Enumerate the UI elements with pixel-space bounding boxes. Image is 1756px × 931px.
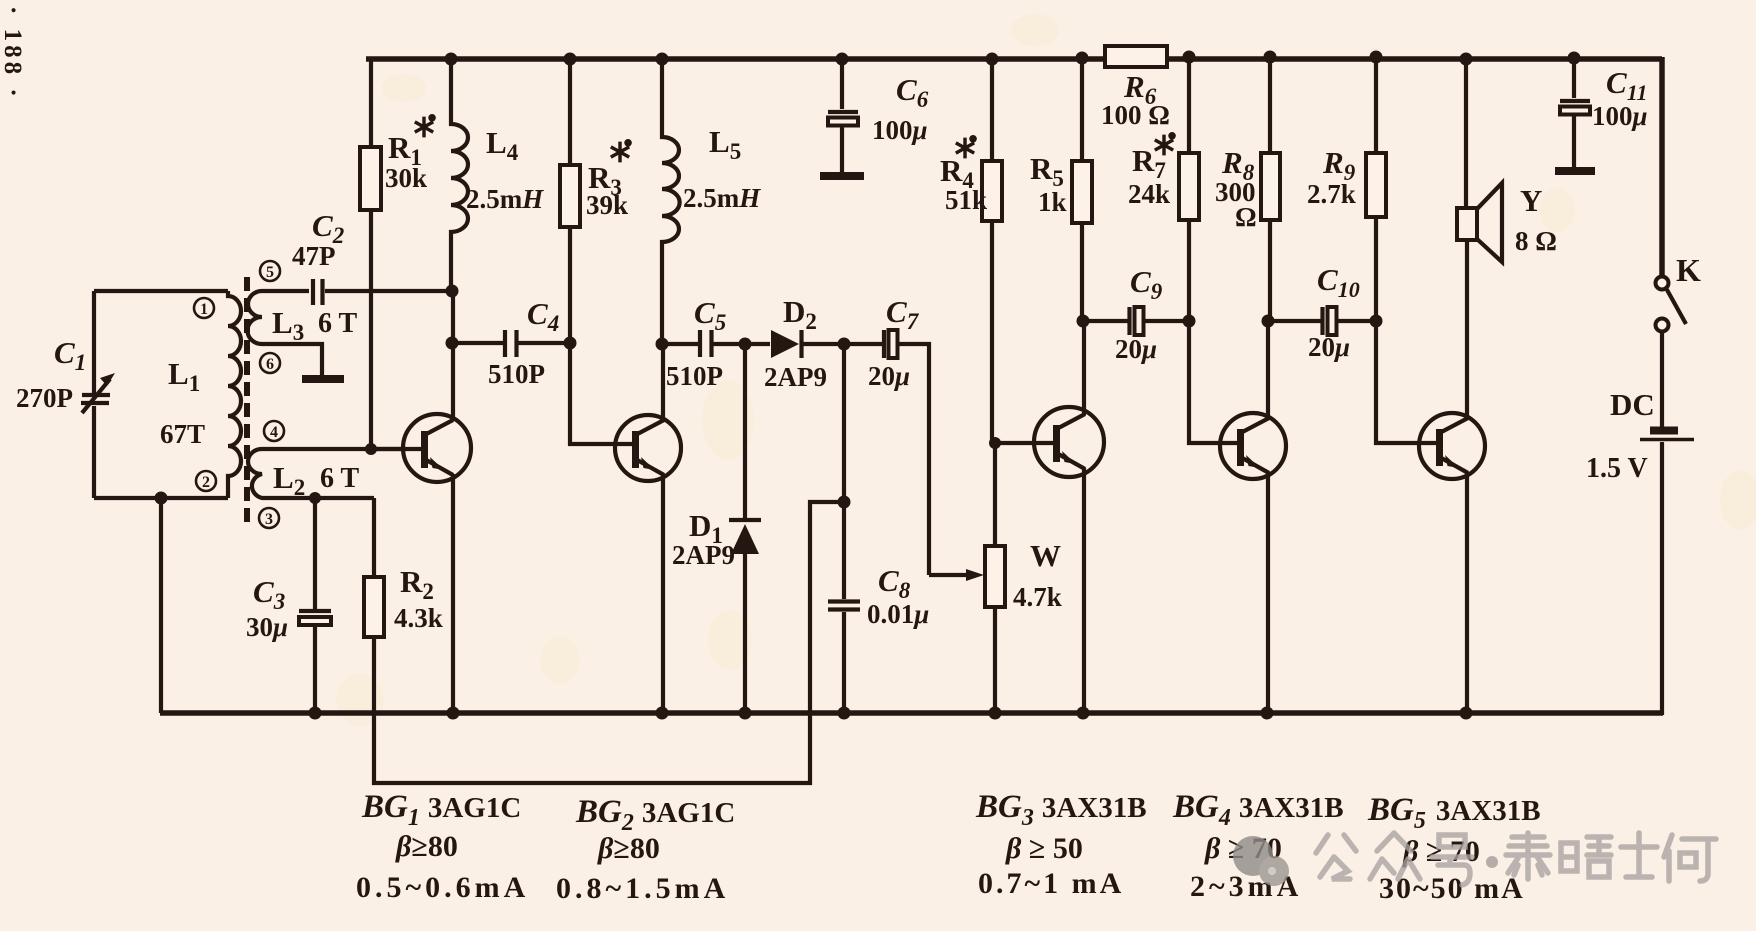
capacitor C10 xyxy=(1262,307,1383,335)
wire BG5 emitter xyxy=(1465,472,1469,713)
svg-text:β≥80: β≥80 xyxy=(597,832,660,865)
svg-text:270P: 270P xyxy=(16,383,73,413)
svg-text:4.7k: 4.7k xyxy=(1013,582,1062,612)
inductor L5 xyxy=(662,59,680,344)
svg-text:K: K xyxy=(1676,252,1701,288)
svg-text:W: W xyxy=(1030,538,1061,573)
transistor BG3 xyxy=(1034,407,1104,477)
resistor R3 xyxy=(560,53,636,445)
svg-text:6 T: 6 T xyxy=(320,463,359,494)
capacitor C5 xyxy=(700,330,712,357)
node L1 bottom wire xyxy=(94,496,228,500)
svg-text:8 Ω: 8 Ω xyxy=(1515,226,1557,256)
watermark text xyxy=(1316,833,1716,885)
speaker Y xyxy=(1457,53,1502,263)
char zhong xyxy=(1370,833,1420,879)
resistor R9 xyxy=(1366,51,1440,444)
inductor L4 xyxy=(451,59,468,291)
svg-text:510P: 510P xyxy=(666,361,723,391)
svg-text:100μ: 100μ xyxy=(872,115,928,145)
svg-text:30μ: 30μ xyxy=(246,612,288,642)
diode D2 xyxy=(771,330,802,358)
svg-text:5: 5 xyxy=(266,264,274,281)
svg-text:51k: 51k xyxy=(945,185,987,215)
wire battery to bottom rail xyxy=(1660,442,1664,715)
resistor R2 xyxy=(364,498,384,637)
wire BG2 emitter to ground xyxy=(661,474,665,713)
resistor R8 xyxy=(1261,51,1280,322)
wire collector node to C4 xyxy=(452,341,505,345)
capacitor C2 xyxy=(313,279,323,305)
wire L1 bottom to ground rail xyxy=(159,498,163,713)
transistor BG2 xyxy=(615,415,681,481)
svg-text:0.8~1.5mA: 0.8~1.5mA xyxy=(556,872,729,905)
dot xyxy=(1486,856,1498,868)
switch K xyxy=(1656,277,1687,332)
inductor L2 xyxy=(248,449,406,498)
svg-text:6: 6 xyxy=(266,356,274,373)
capacitor C3 xyxy=(299,492,331,720)
svg-text:20μ: 20μ xyxy=(1308,332,1350,362)
wire switch to battery xyxy=(1660,331,1664,427)
capacitor C6 xyxy=(820,53,864,177)
svg-text:20μ: 20μ xyxy=(868,361,910,391)
svg-text:20μ: 20μ xyxy=(1115,334,1157,364)
wire BG2 collector xyxy=(661,344,665,421)
svg-text:3: 3 xyxy=(265,511,273,528)
transistor data table xyxy=(356,789,1541,905)
capacitor C1 xyxy=(81,291,115,498)
svg-text:100μ: 100μ xyxy=(1592,101,1648,131)
inductor L1 xyxy=(228,291,241,498)
transformer core xyxy=(244,277,250,525)
svg-text:1: 1 xyxy=(200,301,208,318)
capacitor C7 xyxy=(838,330,898,358)
resistor R4 xyxy=(982,53,1057,444)
svg-text:4: 4 xyxy=(270,424,278,441)
resistor R1 xyxy=(360,59,426,455)
wire C2 to BG1 collector xyxy=(325,289,452,293)
svg-text:1k: 1k xyxy=(1038,187,1067,217)
transistor BG1 xyxy=(403,414,471,482)
capacitor C11 xyxy=(1555,52,1595,172)
wire BG5 collector to speaker xyxy=(1465,240,1469,419)
wire detector node down to AGC xyxy=(842,344,846,502)
ground for L3 xyxy=(302,375,344,383)
wire BG1 emitter to ground xyxy=(451,474,455,713)
resistor R6 xyxy=(1105,46,1167,67)
svg-text:2AP9: 2AP9 xyxy=(764,362,827,392)
svg-text:2AP9: 2AP9 xyxy=(672,540,735,570)
char shi xyxy=(1621,833,1657,877)
paper tint blobs xyxy=(336,14,1756,726)
wire detector line xyxy=(662,344,929,575)
wire bottom ground rail xyxy=(160,710,1663,716)
transistor BG4 xyxy=(1220,413,1286,479)
wire BG4 collector xyxy=(1266,321,1270,419)
svg-text:· 188 ·: · 188 · xyxy=(0,6,26,101)
diode D1 xyxy=(729,338,761,720)
pin number circles xyxy=(194,261,284,528)
svg-text:510P: 510P xyxy=(488,359,545,389)
wire C4 to R3 node xyxy=(516,341,570,345)
svg-text:2.5mH: 2.5mH xyxy=(466,184,544,214)
svg-text:0.01μ: 0.01μ xyxy=(867,599,929,629)
svg-text:6 T: 6 T xyxy=(318,308,357,339)
watermark logo xyxy=(1233,836,1289,886)
svg-text:Ω: Ω xyxy=(1235,202,1257,232)
wire top supply rail xyxy=(366,56,1662,62)
svg-text:47P: 47P xyxy=(292,241,336,271)
svg-text:1.5 V: 1.5 V xyxy=(1586,453,1648,484)
battery DC xyxy=(1640,431,1694,440)
capacitor C4 xyxy=(505,330,517,357)
svg-text:100 Ω: 100 Ω xyxy=(1101,100,1170,130)
capacitor C9 xyxy=(1077,307,1196,335)
svg-text:67T: 67T xyxy=(160,419,205,449)
resistor R7 xyxy=(1179,51,1241,444)
char hao xyxy=(1432,835,1472,885)
inductor L3 xyxy=(247,291,322,377)
resistor R5 xyxy=(1072,52,1092,322)
char he xyxy=(1664,835,1716,881)
svg-text:24k: 24k xyxy=(1128,179,1170,209)
char tai xyxy=(1506,833,1550,879)
svg-text:4.3k: 4.3k xyxy=(394,603,443,633)
svg-text:2.5mH: 2.5mH xyxy=(683,183,761,213)
char gong xyxy=(1316,835,1356,879)
svg-text:Y: Y xyxy=(1520,183,1542,218)
potentiometer W xyxy=(929,437,1005,720)
wire BG1 collector xyxy=(451,291,455,421)
svg-text:β ≥ 50: β ≥ 50 xyxy=(1005,832,1083,865)
svg-text:0.5~0.6mA: 0.5~0.6mA xyxy=(356,871,529,904)
svg-text:30k: 30k xyxy=(385,163,427,193)
char wu xyxy=(1561,837,1611,877)
wire BG3 emitter xyxy=(1082,468,1086,713)
svg-text:β≥80: β≥80 xyxy=(395,830,458,863)
svg-text:DC: DC xyxy=(1610,387,1655,422)
capacitor C8 xyxy=(828,502,860,720)
svg-text:2.7k: 2.7k xyxy=(1307,179,1356,209)
star marks xyxy=(415,116,1174,163)
svg-text:2: 2 xyxy=(202,474,210,491)
wire BG3 collector xyxy=(1082,321,1086,415)
wire AGC feedback line xyxy=(374,502,844,783)
wire BG4 emitter xyxy=(1266,472,1270,713)
svg-text:0.7~1 mA: 0.7~1 mA xyxy=(978,867,1124,900)
svg-text:39k: 39k xyxy=(586,190,628,220)
node L1 top wire xyxy=(94,289,228,293)
transistor BG5 xyxy=(1419,413,1485,479)
wire right side down to switch xyxy=(1659,57,1665,277)
